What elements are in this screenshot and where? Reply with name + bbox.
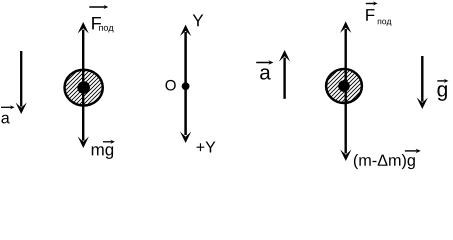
node: right acceleration arrowhead pointing up [279, 50, 290, 62]
wire: left balloon vertical force line [82, 30, 84, 141]
node: left balloon center dot [77, 81, 90, 94]
wire: vector bar over g label [437, 80, 446, 82]
label: right acceleration a [260, 68, 271, 79]
label: axis +Y (bottom) [197, 141, 216, 152]
label: gravity g [437, 85, 446, 101]
wire: right acceleration arrow shaft [283, 58, 285, 99]
node: left balloon up arrowhead (lift force) [78, 22, 89, 34]
node: gravity arrowhead pointing down [417, 98, 428, 110]
wire: vector bar over g of right weight label [405, 150, 418, 152]
node: arrowhead of vector bar over g of mg [110, 140, 115, 144]
node: arrowhead of vector bar over right F [373, 1, 378, 5]
node: Y axis bottom arrowhead [180, 132, 191, 144]
node O: origin dot on axis [182, 82, 190, 90]
node: left acceleration arrowhead pointing down [16, 103, 27, 115]
wire: vector bar over g of mg [103, 141, 112, 143]
wire: vector bar over right F label [366, 3, 375, 5]
label: right lift force F [366, 9, 374, 21]
node: left balloon down arrowhead (weight) [78, 137, 89, 149]
node: Y axis top arrowhead [180, 25, 191, 36]
wire: vector bar over left F label [89, 6, 105, 8]
node: arrowhead of vector bar over g label [444, 79, 449, 83]
wire: Y axis line [184, 32, 187, 135]
wire: gravity arrow shaft (far right) [421, 56, 423, 102]
label: left weight mg [92, 146, 113, 159]
node: arrowhead of vector bar over left a [10, 105, 15, 109]
label: axis Y (top) [193, 15, 204, 27]
wire: vector bar over left label a [1, 106, 12, 108]
node: arrowhead of vector bar over right a [268, 60, 273, 65]
label: right subscript pod [378, 20, 392, 26]
wire: right balloon vertical force line [345, 29, 347, 153]
label: origin O [166, 80, 176, 91]
node: right balloon up arrowhead (lift force) [340, 21, 351, 33]
node: right balloon center dot [338, 80, 350, 92]
balloon M2: right hatched ellipse [326, 69, 362, 103]
node: arrowhead of vector bar over right weight g [416, 149, 421, 154]
wire: left acceleration arrow shaft [20, 51, 22, 107]
label: left subscript pod [99, 26, 113, 33]
wire: vector bar over right label a [256, 62, 270, 64]
node: arrowhead of vector bar over left F [104, 5, 109, 9]
balloon M1: left hatched ellipse [65, 70, 103, 106]
node: right balloon down arrowhead (weight) [340, 150, 351, 162]
label: left acceleration a [1, 115, 9, 124]
label: left lift force F [92, 17, 101, 29]
label: right weight (m-dm)g [354, 154, 415, 169]
